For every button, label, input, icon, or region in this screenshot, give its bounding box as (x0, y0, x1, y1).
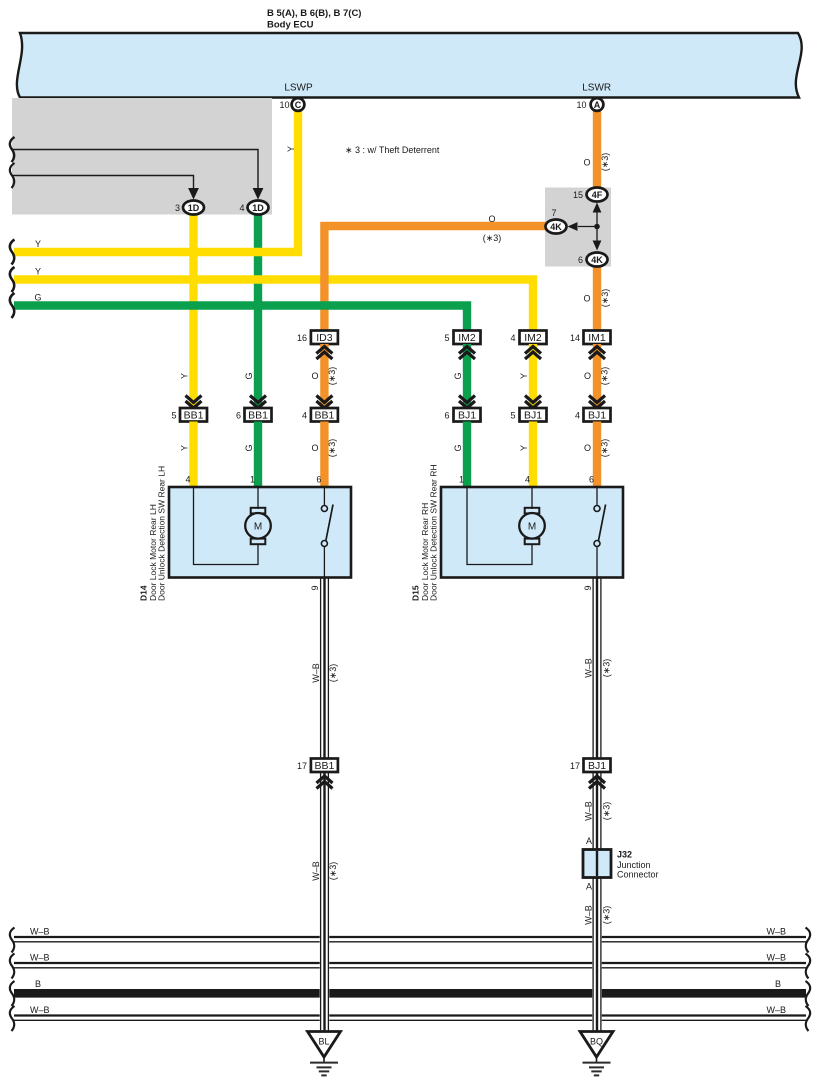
component D15 Door Lock Motor Rear RH box (441, 487, 623, 578)
wire G horizontal (14, 306, 467, 332)
svg-text:D14: D14 (139, 585, 149, 601)
svg-text:(∗3): (∗3) (327, 439, 337, 458)
svg-text:W–B: W–B (766, 953, 786, 963)
connector 5 BB1 (171, 408, 207, 422)
mask under left W-B wire at buses (320, 928, 330, 1032)
wire Y IM2 to BJ1 (529, 344, 537, 409)
svg-text:A: A (586, 836, 592, 846)
arrow to 4K7 (578, 226, 597, 228)
svg-text:6: 6 (444, 411, 449, 421)
svg-text:(∗3): (∗3) (602, 906, 612, 925)
svg-text:IM2: IM2 (458, 332, 476, 344)
chevrons down above BJ1-5 (525, 396, 541, 409)
svg-text:4: 4 (239, 203, 244, 213)
ground BL (308, 1032, 341, 1076)
wire Y BJ1 to D15 pin4 (529, 422, 537, 488)
svg-text:M: M (528, 521, 536, 532)
svg-text:6: 6 (236, 411, 241, 421)
svg-text:G: G (453, 444, 463, 451)
wire G BJ1 to D15 pin1 (463, 422, 471, 488)
svg-text:Door Unlock Detection SW Rear: Door Unlock Detection SW Rear RH (429, 464, 439, 601)
wire Y horizontal 2 (14, 280, 533, 332)
connector 14 IM1 (570, 331, 611, 345)
motor M D14 (245, 508, 271, 544)
svg-text:O: O (584, 443, 591, 453)
svg-text:Y: Y (35, 267, 41, 277)
svg-text:W–B: W–B (584, 658, 594, 678)
svg-text:4F: 4F (592, 190, 603, 200)
svg-text:B: B (775, 979, 781, 989)
svg-text:1: 1 (459, 475, 464, 485)
connector 6 BB1 (236, 408, 272, 422)
svg-text:O: O (488, 214, 495, 224)
chevrons up below BB1-17 (317, 776, 333, 789)
wire Y vertical from 1D pin3 (189, 212, 197, 409)
brace left wire1 (10, 137, 15, 162)
arrow to 4F (596, 210, 598, 227)
svg-text:6: 6 (316, 475, 321, 485)
chevrons down above BB1-4 (316, 396, 332, 409)
switch D15 (594, 487, 606, 578)
D14 internal wire pin1 to motor (257, 487, 259, 509)
wire O from 4K pin7 to ID3 (324, 226, 546, 331)
svg-text:IM1: IM1 (588, 332, 606, 344)
svg-text:(∗3): (∗3) (328, 862, 338, 881)
svg-text:Body ECU: Body ECU (267, 20, 314, 31)
svg-text:(∗3): (∗3) (602, 659, 612, 678)
svg-text:O: O (311, 443, 318, 453)
svg-text:5: 5 (510, 411, 515, 421)
svg-text:17: 17 (297, 761, 307, 771)
svg-text:ID3: ID3 (316, 332, 333, 344)
bus W-B 4 (10, 1005, 810, 1031)
connector 5 BJ1 (510, 408, 546, 422)
svg-text:O: O (584, 371, 591, 381)
svg-text:10: 10 (279, 100, 289, 110)
svg-text:LSWP: LSWP (284, 83, 313, 94)
svg-text:BL: BL (318, 1037, 329, 1047)
svg-text:W–B: W–B (311, 861, 321, 881)
svg-text:G: G (244, 372, 254, 379)
wire O IM1 to BJ1 (593, 344, 601, 409)
svg-text:4: 4 (510, 333, 515, 343)
svg-text:Y: Y (286, 146, 296, 152)
svg-text:9: 9 (310, 585, 320, 590)
svg-text:W–B: W–B (584, 905, 594, 925)
svg-text:G: G (244, 444, 254, 451)
svg-text:O: O (583, 158, 590, 168)
svg-text:7: 7 (551, 208, 556, 218)
svg-text:A: A (594, 100, 601, 110)
wire thin to 1D pin4 (12, 150, 258, 189)
svg-text:BJ1: BJ1 (458, 410, 476, 422)
svg-text:1: 1 (250, 475, 255, 485)
svg-text:9: 9 (583, 585, 593, 590)
svg-text:(∗3): (∗3) (483, 233, 502, 243)
svg-text:B 5(A), B 6(B), B 7(C): B 5(A), B 6(B), B 7(C) (267, 8, 361, 19)
svg-text:∗ 3 : w/ Theft Deterrent: ∗ 3 : w/ Theft Deterrent (345, 145, 440, 155)
connector 4 BB1 (302, 408, 338, 422)
connector 5 IM2 (444, 331, 480, 345)
svg-text:C: C (295, 100, 302, 110)
svg-text:5: 5 (171, 411, 176, 421)
connector 4 1D oval (239, 201, 268, 215)
svg-text:W–B: W–B (766, 927, 786, 937)
svg-text:O: O (311, 371, 318, 381)
svg-text:D15: D15 (411, 585, 421, 601)
chevrons down above BB1-6 (250, 396, 266, 409)
chevrons down above BJ1-4 (589, 396, 605, 409)
svg-text:A: A (586, 882, 592, 892)
bus B black (10, 979, 810, 1006)
junction node 4K (594, 224, 600, 230)
svg-text:3: 3 (175, 203, 180, 213)
svg-text:Y: Y (519, 373, 529, 379)
connector 15 4F oval (573, 188, 608, 202)
svg-text:B: B (35, 979, 41, 989)
brace left G (10, 293, 15, 318)
connector 4 IM2 (510, 331, 546, 345)
svg-text:W–B: W–B (311, 663, 321, 683)
ground BQ (580, 1032, 613, 1076)
svg-text:W–B: W–B (30, 953, 50, 963)
connector 17 BJ1 (570, 759, 611, 773)
chevrons up below IM1 (589, 347, 605, 360)
svg-text:Door Unlock Detection SW Rear: Door Unlock Detection SW Rear LH (157, 466, 167, 601)
svg-text:BB1: BB1 (314, 410, 334, 422)
connector 10 C circle (279, 98, 304, 111)
svg-text:W–B: W–B (30, 1005, 50, 1015)
gray harness box right (4F/4K) (545, 188, 611, 267)
svg-text:Y: Y (180, 373, 190, 379)
chevrons up below IM2-4 (525, 347, 541, 360)
svg-text:4K: 4K (550, 222, 562, 232)
svg-text:4K: 4K (591, 255, 603, 265)
wire thin to 1D pin3 (12, 176, 194, 189)
arrow to 4K6 (596, 227, 598, 244)
svg-text:BJ1: BJ1 (588, 760, 606, 772)
svg-text:(∗3): (∗3) (600, 439, 610, 458)
svg-text:4: 4 (185, 475, 190, 485)
svg-text:6: 6 (578, 255, 583, 265)
svg-text:O: O (583, 294, 590, 304)
svg-text:(∗3): (∗3) (328, 664, 338, 683)
connector 6 BJ1 (444, 408, 480, 422)
connector 6 4K oval (578, 253, 608, 267)
wire G BB1 to D14 pin1 (254, 422, 262, 488)
svg-text:W–B: W–B (30, 927, 50, 937)
D15 internal wire pin1 to motor (467, 487, 532, 565)
svg-text:W–B: W–B (766, 1005, 786, 1015)
wire W-B triple D15 pin9 down (593, 578, 601, 1032)
wire G IM2 to BJ1 (463, 344, 471, 409)
wire O ID3 to BB1 (320, 344, 328, 409)
D15 internal wire pin4 to motor (531, 487, 533, 509)
svg-text:4: 4 (575, 411, 580, 421)
connector 16 ID3 (297, 331, 338, 345)
svg-text:1D: 1D (252, 203, 264, 213)
svg-text:W–B: W–B (584, 801, 594, 821)
chevrons down above BB1-5 (186, 396, 202, 409)
wire Y BB1 to D14 pin4 (189, 422, 197, 488)
svg-text:1D: 1D (188, 203, 200, 213)
svg-text:14: 14 (570, 333, 580, 343)
svg-text:BB1: BB1 (248, 410, 268, 422)
wire G vertical from 1D pin4 (254, 212, 262, 409)
svg-text:Y: Y (180, 445, 190, 451)
svg-text:(∗3): (∗3) (600, 153, 610, 172)
svg-text:5: 5 (444, 333, 449, 343)
chevrons up below BJ1-17 (589, 776, 605, 789)
svg-text:Junction: Junction (617, 860, 651, 870)
chevrons down above BJ1-6 (459, 396, 475, 409)
bus W-B 1 (10, 927, 810, 953)
svg-text:M: M (254, 521, 262, 532)
svg-text:G: G (34, 293, 41, 303)
connector 7 4K oval (546, 208, 567, 234)
svg-text:4: 4 (302, 411, 307, 421)
svg-text:(∗3): (∗3) (602, 802, 612, 821)
wire O from LSWR A to 4F (593, 111, 601, 188)
svg-text:BJ1: BJ1 (524, 410, 542, 422)
brace left Y1 (10, 240, 15, 265)
mask under right W-B wire at buses (592, 928, 602, 1032)
svg-text:15: 15 (573, 190, 583, 200)
svg-text:BB1: BB1 (314, 760, 334, 772)
chevrons up below IM2-5 (459, 347, 475, 360)
svg-text:(∗3): (∗3) (327, 367, 337, 386)
svg-text:(∗3): (∗3) (600, 289, 610, 308)
svg-text:BB1: BB1 (184, 410, 204, 422)
wire W-B triple D14 pin9 down (321, 578, 329, 1032)
component D14 Door Lock Motor Rear LH box (169, 487, 351, 578)
brace left wire2 (10, 163, 15, 188)
motor M D15 (519, 508, 545, 544)
brace left Y2 (10, 267, 15, 292)
connector 4 BJ1 (575, 408, 611, 422)
wire Y from LSWP C (14, 111, 298, 252)
svg-text:BQ: BQ (590, 1037, 603, 1047)
svg-text:4: 4 (525, 475, 530, 485)
wire O from 4K pin6 to IM1 (593, 265, 601, 331)
Body ECU connector band (17, 33, 802, 98)
switch D14 (321, 487, 333, 578)
svg-text:Y: Y (519, 445, 529, 451)
svg-text:IM2: IM2 (524, 332, 542, 344)
svg-text:J32: J32 (617, 850, 632, 860)
wire O BB1 to D14 pin6 (320, 422, 328, 488)
wire O BJ1 to D15 pin6 (593, 422, 601, 488)
svg-text:Y: Y (35, 239, 41, 249)
svg-text:16: 16 (297, 333, 307, 343)
gray harness box top-left (12, 98, 272, 215)
connector 3 1D oval (175, 201, 204, 215)
svg-text:BJ1: BJ1 (588, 410, 606, 422)
svg-text:10: 10 (576, 100, 586, 110)
svg-text:G: G (453, 372, 463, 379)
svg-text:6: 6 (589, 475, 594, 485)
svg-text:LSWR: LSWR (582, 83, 611, 94)
chevrons up below ID3 (316, 347, 332, 360)
svg-text:(∗3): (∗3) (600, 367, 610, 386)
svg-text:17: 17 (570, 761, 580, 771)
D14 internal wire pin4 to motor (194, 487, 259, 565)
bus W-B 2 (10, 953, 810, 979)
junction connector J32 (583, 850, 659, 880)
connector 17 BB1 (297, 759, 338, 773)
connector 10 A circle (576, 98, 603, 111)
svg-text:Connector: Connector (617, 870, 659, 880)
